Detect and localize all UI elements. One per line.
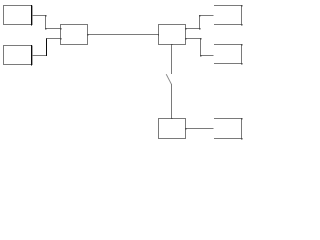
wire switch lower contact (to G top) <box>171 84 173 119</box>
corner node E bottom-right <box>241 24 242 25</box>
block H (bottom-right open box) <box>214 119 241 139</box>
wire switch upper contact (from D bottom) <box>171 45 173 74</box>
junction C left pin row28 <box>60 28 61 29</box>
block A right edge (black) <box>31 5 33 25</box>
wire corner node col45 row15 <box>45 15 46 16</box>
corner node E top-right <box>241 5 242 6</box>
corner node F bottom-right <box>241 63 242 64</box>
wire D to E (staircase up) <box>186 16 214 29</box>
wire B to C vertical riser (black) <box>46 38 48 56</box>
junction G top pin col171 <box>171 118 172 119</box>
wire B to C horizontal from B <box>32 55 46 57</box>
block B right edge AA spill <box>32 46 34 66</box>
block A (top-left box, gray left/top/bottom edges) <box>4 6 32 25</box>
wire corner node col199 row15 <box>199 15 200 16</box>
junction G right pin row128 <box>185 128 186 129</box>
block C (middle-left box) <box>61 25 88 45</box>
wire corner node col45 row28 <box>45 28 46 29</box>
junction D right pin row28 <box>185 28 186 29</box>
junction D bottom pin col171 <box>171 44 172 45</box>
junction D right pin row38 <box>185 38 186 39</box>
block D (center box) <box>159 25 186 45</box>
wire corner node col200 row55 <box>200 55 201 56</box>
block A right edge AA spill <box>32 6 34 26</box>
wire corner node col199 row28 <box>199 28 200 29</box>
junction C left pin row38 <box>60 38 61 39</box>
wire A to C (staircase) <box>32 16 61 29</box>
block G (bottom box) <box>159 119 186 139</box>
corner node F top-right <box>241 44 242 45</box>
block B right edge (black) <box>31 45 33 65</box>
junction C right pin row34 <box>87 34 88 35</box>
block F (right open box) <box>214 45 241 64</box>
corner node H top-right <box>241 118 242 119</box>
corner node H bottom-right <box>241 138 242 139</box>
wire C to D (long horizontal) <box>88 34 159 36</box>
wire B to C horizontal into C <box>47 38 61 40</box>
block B (lower-left box, gray left/top/bottom edges) <box>4 46 32 65</box>
wire G to H (horizontal) <box>186 128 214 130</box>
wire corner node col200 row38 <box>200 38 201 39</box>
switch S1 blade (open, diagonal) <box>166 74 171 84</box>
junction D left pin row34 <box>158 34 159 35</box>
block E (top-right open box) <box>214 6 241 25</box>
wire D to F (staircase down) <box>186 39 214 56</box>
